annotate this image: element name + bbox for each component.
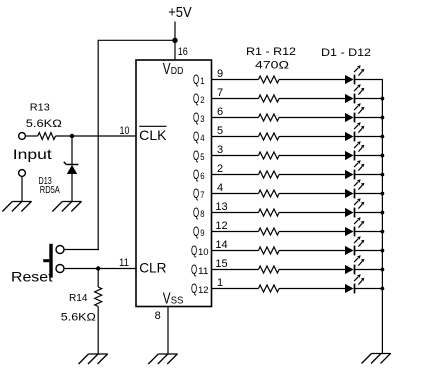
wire Q1 output to R1 [212, 79, 259, 81]
resistor R7 [259, 190, 279, 197]
svg-text:Q: Q [193, 91, 199, 106]
LED D6 [345, 160, 364, 179]
wire D11 cathode to bus [355, 269, 384, 271]
IC label Q9 [193, 224, 205, 239]
svg-text:1: 1 [217, 277, 223, 289]
wire input terminal to R13 [25, 135, 37, 137]
resistor R12 [259, 285, 279, 292]
LED D2 [345, 84, 364, 103]
wire D10 cathode to bus [355, 250, 384, 252]
svg-text:Q: Q [191, 262, 197, 277]
IC label Q8 [193, 205, 205, 220]
resistor R8 [259, 209, 279, 216]
svg-text:12: 12 [215, 220, 227, 232]
svg-text:Q: Q [193, 110, 199, 125]
wire D6 cathode to bus [355, 174, 384, 176]
pushbutton SW1 stem [43, 259, 49, 262]
wire Q4 output to R4 [212, 136, 259, 138]
pushbutton SW1 upper contact [56, 246, 64, 254]
IC label Q4 [193, 129, 205, 144]
svg-text:3: 3 [217, 144, 223, 156]
svg-text:Q: Q [193, 129, 199, 144]
svg-text:SS: SS [171, 295, 184, 307]
IC label Q1 [193, 72, 205, 87]
LED D9 [345, 217, 364, 236]
LED D4 [345, 122, 364, 141]
resistor R13 [38, 133, 56, 140]
svg-text:14: 14 [215, 239, 227, 251]
wire D1 cathode to bus [355, 79, 384, 81]
IC label Q6 [193, 167, 205, 182]
wire D3 cathode to bus [355, 117, 384, 119]
svg-text:2: 2 [200, 95, 204, 106]
IC label Q3 [193, 110, 205, 125]
svg-text:16: 16 [178, 46, 188, 58]
IC label VDD [163, 61, 184, 78]
svg-text:15: 15 [215, 258, 227, 270]
ground under D13 [52, 202, 81, 212]
LED D3 [345, 103, 364, 122]
svg-text:4: 4 [217, 182, 223, 194]
svg-text:Q: Q [193, 72, 199, 87]
wire R9 to D9 [279, 231, 345, 233]
junction bus node row 5 [381, 154, 385, 158]
svg-text:CLR: CLR [139, 261, 166, 276]
wire R11 to D11 [279, 269, 345, 271]
svg-text:Q: Q [193, 224, 199, 239]
svg-text:4: 4 [200, 133, 204, 144]
svg-text:5: 5 [217, 125, 223, 137]
junction bus node row 2 [381, 97, 385, 101]
zener diode D13 anode triangle [67, 165, 77, 174]
svg-text:7: 7 [200, 190, 204, 201]
IC U1 CD4040 body [136, 60, 212, 307]
zener diode D13 cathode bar [64, 162, 79, 165]
resistor R3 [259, 114, 279, 121]
wire Q5 output to R5 [212, 155, 259, 157]
resistor R11 [259, 266, 279, 273]
wire R5 to D5 [279, 155, 345, 157]
wire D5 cathode to bus [355, 155, 384, 157]
svg-text:5.6KΩ: 5.6KΩ [26, 118, 62, 130]
svg-text:Q: Q [193, 205, 199, 220]
junction bus node row 9 [381, 230, 385, 234]
resistor R9 [259, 228, 279, 235]
svg-text:11: 11 [198, 266, 209, 277]
IC label Q2 [193, 91, 205, 106]
LED D7 [345, 179, 364, 198]
LED D11 [345, 255, 364, 274]
svg-text:CLK: CLK [139, 128, 166, 143]
junction +5V node [172, 38, 177, 43]
svg-text:D1 - D12: D1 - D12 [321, 47, 371, 59]
wire R10 to D10 [279, 250, 345, 252]
pushbutton SW1 lower contact [56, 265, 64, 273]
wire Q11 output to R11 [212, 269, 259, 271]
wire to switch upper contact [64, 249, 99, 251]
svg-text:3: 3 [200, 114, 204, 125]
wire Q12 output to R12 [212, 288, 259, 290]
IC label Q10 [191, 243, 209, 258]
svg-text:13: 13 [215, 201, 227, 213]
LED D12 [345, 274, 364, 293]
svg-text:5.6KΩ: 5.6KΩ [61, 312, 96, 324]
input terminal (signal) [19, 133, 26, 140]
svg-text:470Ω: 470Ω [255, 59, 289, 71]
svg-text:8: 8 [200, 209, 204, 220]
ground under input terminal [2, 202, 31, 212]
ground under LED bus [362, 354, 391, 364]
svg-text:+5V: +5V [168, 5, 192, 21]
resistor R2 [259, 95, 279, 102]
IC label Q5 [193, 148, 205, 163]
junction bus node row 4 [381, 135, 385, 139]
svg-text:6: 6 [217, 106, 223, 118]
svg-text:Reset: Reset [11, 269, 53, 285]
resistor R5 [259, 152, 279, 159]
wire R7 to D7 [279, 193, 345, 195]
junction bus node row 6 [381, 173, 385, 177]
svg-text:1: 1 [200, 76, 204, 87]
wire R14 to ground [97, 307, 99, 355]
wire R3 to D3 [279, 117, 345, 119]
IC label Q12 [191, 281, 209, 296]
wire R1 to D1 [279, 79, 345, 81]
wire D9 cathode to bus [355, 231, 384, 233]
wire D12 cathode to bus [355, 288, 384, 290]
wire Q2 output to R2 [212, 98, 259, 100]
wire input ground terminal to ground [21, 176, 23, 201]
svg-text:Q: Q [193, 148, 199, 163]
svg-text:11: 11 [119, 257, 129, 269]
wire switch lower contact to CLR pin 11 [64, 268, 136, 270]
wire D2 cathode to bus [355, 98, 384, 100]
wire Q8 output to R8 [212, 212, 259, 214]
wire R13 to CLK pin 10 [56, 135, 137, 137]
svg-text:Input: Input [13, 146, 52, 162]
wire +5V to pin 16 [174, 22, 176, 61]
IC label VSS [163, 291, 184, 308]
resistor R10 [259, 247, 279, 254]
resistor R14 [95, 287, 102, 307]
svg-text:7: 7 [217, 87, 223, 99]
wire Q10 output to R10 [212, 250, 259, 252]
svg-text:5: 5 [200, 152, 204, 163]
svg-text:Q: Q [193, 167, 199, 182]
svg-text:8: 8 [155, 310, 161, 322]
svg-text:R14: R14 [69, 292, 88, 304]
wire VSS pin 8 to ground [167, 307, 169, 355]
svg-text:Q: Q [193, 186, 199, 201]
LED D5 [345, 141, 364, 160]
svg-text:2: 2 [217, 163, 223, 175]
junction node at R14 [96, 266, 100, 270]
svg-text:Q: Q [191, 243, 197, 258]
LED D10 [345, 236, 364, 255]
wire top horizontal +5V rail [98, 39, 175, 41]
wire left vertical +5V to reset switch [97, 40, 99, 250]
svg-text:R1 - R12: R1 - R12 [246, 46, 296, 58]
wire D8 cathode to bus [355, 212, 384, 214]
junction node at D13 [70, 134, 74, 138]
resistor R1 [259, 76, 279, 83]
wire R4 to D4 [279, 136, 345, 138]
wire node to zener D13 [71, 136, 73, 165]
wire node to R14 [97, 269, 99, 288]
IC label Q7 [193, 186, 205, 201]
wire Q9 output to R9 [212, 231, 259, 233]
wire R12 to D12 [279, 288, 345, 290]
svg-text:R13: R13 [30, 102, 50, 114]
junction bus node row 12 [381, 287, 385, 291]
wire Q6 output to R6 [212, 174, 259, 176]
junction bus node row 10 [381, 249, 385, 253]
ground under VSS [148, 354, 177, 364]
wire R6 to D6 [279, 174, 345, 176]
svg-text:12: 12 [198, 285, 209, 296]
LED D8 [345, 198, 364, 217]
wire R2 to D2 [279, 98, 345, 100]
wire Q3 output to R3 [212, 117, 259, 119]
svg-text:9: 9 [200, 228, 204, 239]
wire zener to ground [71, 174, 73, 202]
cathode bus wire [381, 80, 383, 354]
junction bus node row 7 [381, 192, 385, 196]
wire D4 cathode to bus [355, 136, 384, 138]
junction bus node row 11 [381, 268, 385, 272]
junction bus node row 8 [381, 211, 385, 215]
svg-text:6: 6 [200, 171, 204, 182]
LED D1 [345, 65, 364, 84]
pushbutton SW1 actuator bar [49, 244, 52, 278]
svg-text:10: 10 [198, 247, 209, 258]
wire R8 to D8 [279, 212, 345, 214]
svg-text:DD: DD [171, 65, 184, 77]
wire D7 cathode to bus [355, 193, 384, 195]
svg-text:Q: Q [191, 281, 197, 296]
svg-text:RD5A: RD5A [40, 184, 60, 196]
svg-text:10: 10 [120, 125, 130, 137]
ground under R14 [79, 354, 108, 364]
wire Q7 output to R7 [212, 193, 259, 195]
resistor R4 [259, 133, 279, 140]
IC label Q11 [191, 262, 209, 277]
junction bus node row 3 [381, 116, 385, 120]
CLK overline [139, 125, 166, 127]
input ground terminal [19, 170, 26, 177]
resistor R6 [259, 171, 279, 178]
svg-text:9: 9 [217, 68, 223, 80]
